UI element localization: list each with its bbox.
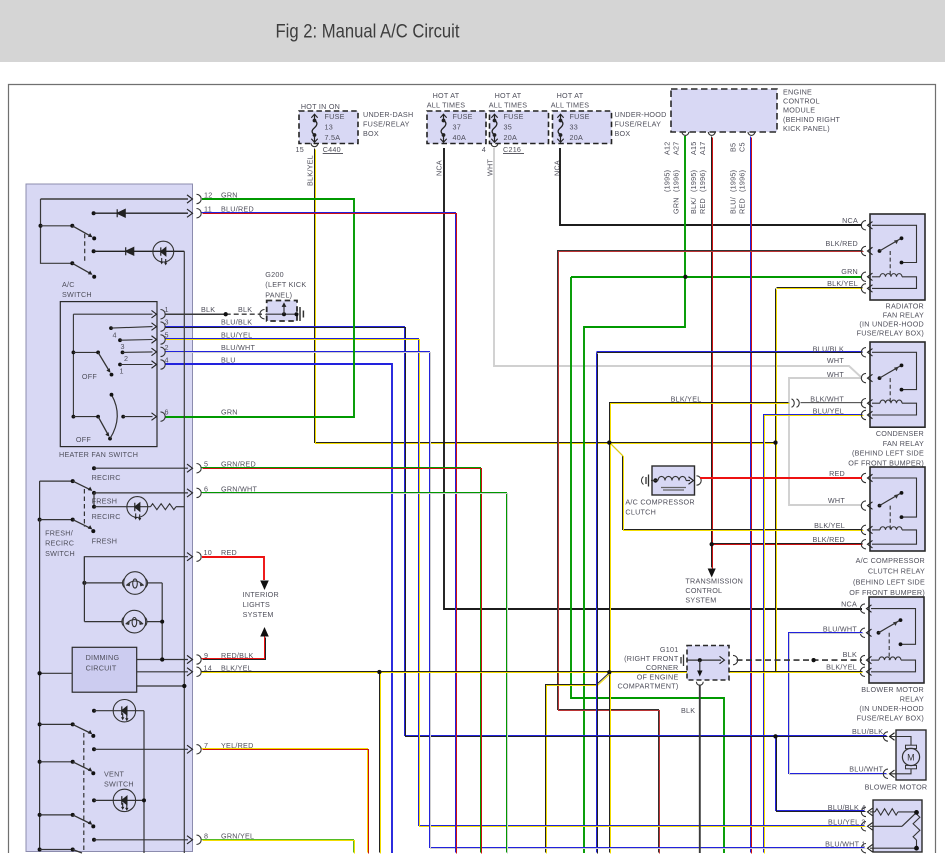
wire RED clutch to relay [700,477,862,479]
wire BLK from G101 down to cut [699,685,701,854]
wire BLK dashed G101 to blower relay [737,659,863,661]
svg-text:GRN: GRN [221,191,238,200]
svg-text:9: 9 [204,651,208,660]
A/C compressor clutch relay pin [861,525,866,534]
A/C switch lever 2 [70,261,74,265]
arrow up from RED/BLK [260,627,269,637]
svg-text:(1995): (1995) [689,170,698,192]
svg-text:M: M [907,753,915,763]
svg-text:3: 3 [121,342,125,351]
svg-text:HEATER FAN SWITCH: HEATER FAN SWITCH [59,450,138,459]
wire GRN from ECM A12/A27 down, junction, left, down to cut (two corners) [584,136,685,853]
fuse F33 20A [553,111,612,144]
svg-text:ENGINE: ENGINE [783,88,812,97]
blower motor relay internal contact wire [871,609,916,645]
svg-text:BLK/RED: BLK/RED [825,239,858,248]
blower motor relay coil [871,659,879,661]
radiator fan relay switch lever [878,249,882,253]
wire RED/BLK pin 9 to arrow [202,637,265,659]
svg-text:FAN RELAY: FAN RELAY [883,439,924,448]
radiator fan relay box [870,214,925,300]
svg-text:A/C: A/C [62,280,75,289]
fuse F35 20A [490,111,549,144]
wire BLU/YEL from heater pin 5 to resistor pin 3 [165,339,865,826]
svg-text:FAN RELAY: FAN RELAY [883,310,924,319]
svg-text:WHT: WHT [827,370,844,379]
recirc indicator LED [92,505,96,509]
vent switch lever 1 [38,722,42,726]
heater contact 2 to pin 2 [121,351,125,355]
svg-text:VENT: VENT [104,769,125,778]
svg-text:HOT AT: HOT AT [433,91,460,100]
G101 left stake symbol [681,655,684,667]
svg-text:TRANSMISSION: TRANSMISSION [685,577,743,586]
G200 pin arc [260,310,265,319]
svg-text:FRESH: FRESH [92,496,118,505]
svg-text:NCA: NCA [842,216,858,225]
svg-text:BLK/: BLK/ [689,197,698,214]
svg-text:BLK/RED: BLK/RED [812,535,845,544]
G101 internal wire [687,659,721,661]
wire BLU from heater pin 4 down to cut [165,364,392,853]
blower motor relay box [869,597,924,683]
A/C switch lever 1 [41,225,73,227]
connector C440 exit [311,143,318,146]
svg-text:BLU/YEL: BLU/YEL [221,331,252,340]
wire GRN heater pin 12 to pin 6 loop [165,199,354,417]
wire BLU/BLK branch down to resistor pin 4 [776,737,865,811]
svg-text:10: 10 [204,548,213,557]
svg-text:BLK/YEL: BLK/YEL [221,663,252,672]
svg-text:SWITCH: SWITCH [104,780,134,789]
svg-text:C5: C5 [738,142,747,152]
fuse F37 40A [427,111,486,144]
wire BLK/RED radiator relay row, down, right, down to cut [558,251,863,853]
svg-text:FRESH: FRESH [92,536,118,545]
blower motor relay pin [860,628,865,637]
condenser fan relay link dashed [889,378,891,403]
A/C compressor clutch relay box [870,467,925,551]
svg-text:BLK/YEL: BLK/YEL [671,394,702,403]
svg-text:CLUTCH RELAY: CLUTCH RELAY [868,567,925,576]
svg-text:BLU/BLK: BLU/BLK [813,344,844,353]
vent contact pin 7 [92,747,96,751]
svg-text:C440: C440 [323,145,341,154]
svg-text:40A: 40A [453,133,467,142]
svg-text:BOX: BOX [615,129,631,138]
svg-text:MODULE: MODULE [783,106,815,115]
svg-text:13: 13 [325,123,334,132]
A/C switch gang dashed link [84,234,86,263]
heater pin 6 wire [123,416,152,418]
heater contact 4 to pin 3 [109,326,113,330]
panel pin 7 [187,745,193,753]
svg-text:(RIGHT FRONT: (RIGHT FRONT [624,654,679,663]
fresh/recirc gang dashed [83,489,85,527]
blower motor relay link dashed [888,633,890,660]
svg-text:PANEL): PANEL) [265,290,292,299]
radiator fan relay pin [861,246,866,255]
blower motor relay pin [860,655,865,664]
A/C compressor clutch relay switch lever [878,504,882,508]
engine control module (ECM) box [671,89,777,132]
wire BLU/WHT from heater pin 2 to resistor pin 1 [165,352,865,848]
svg-text:4: 4 [113,331,117,340]
svg-text:UNDER-DASH: UNDER-DASH [363,110,413,119]
clutch output pin [697,476,702,485]
blower motor relay switch lever [877,631,881,635]
blower motor relay pin [860,667,865,676]
svg-text:BLK: BLK [201,305,215,314]
svg-text:RED: RED [829,469,845,478]
svg-text:HOT IN ON: HOT IN ON [301,102,340,111]
inner rail vertical (illumination bus) [183,251,185,853]
condenser fan relay box [870,342,925,427]
A/C LED circle [153,250,184,252]
wire BLU/YEL condenser relay row and vertical down to cut [764,415,863,853]
G101 ground box [687,646,729,681]
wire GRN radiator fan relay row [571,276,862,278]
wire BLK/WHT from connector to condenser fan relay [801,402,863,404]
wire to pin 10 [84,557,188,583]
svg-text:INTERIOR: INTERIOR [243,590,279,599]
heater pin 1 wire [73,313,152,315]
svg-text:OFF: OFF [76,435,91,444]
svg-text:8: 8 [204,831,208,840]
resistor element vertical [913,814,920,840]
svg-text:SYSTEM: SYSTEM [243,610,274,619]
A/C control panel block [26,184,193,852]
svg-text:RED: RED [221,548,237,557]
A/C compressor clutch relay pin [861,501,866,510]
svg-text:BLOWER MOTOR: BLOWER MOTOR [861,685,924,694]
svg-text:20A: 20A [504,133,518,142]
svg-text:RED/BLK: RED/BLK [221,651,254,660]
A/C switch wire to pin 12 [41,198,189,200]
resistor after LED [151,504,177,510]
A/C compressor clutch relay internal contact wire [872,478,917,517]
A/C compressor clutch relay pin [861,473,866,482]
wire GRN/WHT to cut [202,493,507,853]
dimming output to illumination bus [137,685,185,687]
condenser fan relay internal contact wire [872,352,917,389]
blower motor pins [883,732,888,741]
wire GRN/YEL to cut [202,840,354,853]
vent indicator LED 1 [92,709,96,713]
svg-text:RED: RED [698,198,707,214]
radiator fan relay pin [861,272,866,281]
svg-text:KICK PANEL): KICK PANEL) [783,124,830,133]
wire BLK/RED from ECM A15/A17 down to transmission arrow [711,137,713,568]
svg-text:BLK: BLK [843,650,857,659]
A/C compressor clutch box [652,466,695,495]
lamp right rail [161,583,163,660]
svg-text:UNDER-HOOD: UNDER-HOOD [615,110,667,119]
svg-text:ALL TIMES: ALL TIMES [489,100,528,109]
radiator fan relay pin [861,221,866,230]
diode D1 [117,209,125,217]
svg-text:CONTROL: CONTROL [685,586,722,595]
G101 exit hook [696,682,703,685]
svg-text:ALL TIMES: ALL TIMES [551,100,590,109]
svg-text:BLK/YEL: BLK/YEL [306,155,315,186]
condenser fan relay pin [861,373,866,382]
svg-text:5: 5 [165,331,169,340]
svg-text:CORNER: CORNER [646,663,679,672]
wire BLK pin1 to G200 [165,313,226,315]
G200 internal wire and arrow up [267,313,297,315]
vent indicator LED 2 [92,798,96,802]
wire BLK/YEL branch down to cut [379,673,381,853]
vent LED rail [143,711,145,853]
svg-text:20A: 20A [570,133,584,142]
wire WHT from fuse 35 down, right, to condenser fan relay [494,148,862,378]
lamps left rail [83,557,85,622]
fresh/recirc lever 1 [40,480,73,482]
svg-text:FUSE/RELAY: FUSE/RELAY [363,120,410,129]
condenser fan relay switch lever [878,376,882,380]
node BLK/YEL branch [377,670,381,674]
svg-text:OF FRONT BUMPER): OF FRONT BUMPER) [848,458,924,467]
A/C indicator LED row [92,249,96,253]
fresh/recirc contact pin 6 [92,491,96,495]
G200 right stake symbol [300,307,303,321]
panel pin 10 [187,553,193,561]
dimming output to pin 14 [137,671,188,673]
illumination lamp 1 [82,581,86,585]
svg-text:OF FRONT BUMPER): OF FRONT BUMPER) [849,588,925,597]
node GRN junction at ECM column [683,275,687,279]
svg-text:NCA: NCA [435,160,444,176]
svg-text:7.5A: 7.5A [325,133,341,142]
svg-text:15: 15 [296,145,305,154]
svg-text:(1996): (1996) [698,170,707,192]
wire GRN vertical down from radiator row, right, down to cut [571,277,724,853]
svg-text:6: 6 [165,407,169,416]
diode D2 [126,247,134,255]
svg-text:GRN: GRN [221,407,238,416]
link contact to LED row [93,493,95,507]
svg-text:BLK: BLK [238,305,252,314]
svg-text:RECIRC: RECIRC [92,512,121,521]
condenser fan relay pin [861,399,866,408]
svg-text:B5: B5 [729,143,738,152]
A/C compressor clutch relay pin [861,540,866,549]
svg-text:Fig 2: Manual A/C Circuit: Fig 2: Manual A/C Circuit [276,22,461,43]
wire BLU/BLK condenser relay row from x597 [597,351,863,353]
wire BLU/WHT blower relay to blower motor [789,633,887,774]
node BLK junction [224,312,228,316]
wire BLK/YEL diagonal branch down to clutch relay [610,443,863,530]
svg-text:A/C COMPRESSOR: A/C COMPRESSOR [625,498,694,507]
illumination lamp 2 [84,621,122,623]
svg-text:COMPARTMENT): COMPARTMENT) [617,682,678,691]
A/C switch contact to pin 11 with diode [92,211,96,215]
vent switch lever 3 [38,813,42,817]
vent switch lever 4 (cut) [38,848,42,852]
svg-text:CONDENSER: CONDENSER [876,429,924,438]
wire BLK dashed to G200 [226,313,262,315]
panel pin 9 [187,655,193,663]
svg-text:(BEHIND LEFT SIDE: (BEHIND LEFT SIDE [853,577,925,586]
svg-text:OF ENGINE: OF ENGINE [637,672,679,681]
svg-text:A17: A17 [698,141,707,155]
wire BLU/BLK from heater pin 3 to blower motor [165,327,887,736]
clutch core lines [661,487,686,489]
resistor pins [861,807,866,816]
svg-text:4: 4 [165,356,169,365]
svg-text:BLU/RED: BLU/RED [221,205,254,214]
svg-text:(1995): (1995) [729,170,738,192]
node BLU/BLK junction [774,734,778,738]
svg-text:RADIATOR: RADIATOR [886,301,924,310]
radiator fan relay coil [872,276,880,278]
wire WHT branch condenser relay to A/C compressor clutch relay [789,378,862,505]
svg-text:BLK/YEL: BLK/YEL [826,662,857,671]
fresh/recirc contact pin 5 [92,466,96,470]
svg-text:1: 1 [120,367,124,376]
svg-text:(BEHIND LEFT SIDE: (BEHIND LEFT SIDE [852,449,924,458]
A/C compressor clutch relay link dashed [889,506,891,530]
svg-text:GRN/YEL: GRN/YEL [221,831,254,840]
wire BLK/YEL diagonal jog to y684 then left and down to cut [546,673,610,853]
svg-text:SYSTEM: SYSTEM [685,596,716,605]
fuse F13 7.5A (under-dash) [299,111,358,144]
svg-text:OFF: OFF [82,372,97,381]
svg-text:FUSE: FUSE [453,112,473,121]
svg-text:(1996): (1996) [672,170,681,192]
svg-text:BLK/WHT: BLK/WHT [810,395,844,404]
svg-text:G200: G200 [265,270,284,279]
svg-text:CIRCUIT: CIRCUIT [86,664,117,673]
wire BLU/RED from A/C switch pin 11 down to cut [202,213,456,853]
svg-text:NCA: NCA [841,600,857,609]
svg-text:FUSE/RELAY: FUSE/RELAY [615,120,662,129]
resistor diagonal tap [902,812,917,826]
dimming input from rail [38,671,42,675]
vent contact pin 8 [92,838,96,842]
transmission control system arrow [708,569,716,578]
node BLK/YEL junction at y442 [774,441,778,445]
svg-text:GRN: GRN [841,267,858,276]
header bar [0,0,945,62]
radiator fan relay link dashed [889,251,891,277]
svg-text:BLU: BLU [221,356,236,365]
svg-text:HOT AT: HOT AT [495,91,522,100]
svg-text:(IN UNDER-HOOD: (IN UNDER-HOOD [859,320,924,329]
svg-text:BLU/YEL: BLU/YEL [813,407,844,416]
svg-text:CLUTCH: CLUTCH [625,508,656,517]
panel pin 14 [187,668,193,676]
wire BLK/YEL pin 14 to blower relay [202,671,863,673]
blower motor box [896,730,926,780]
svg-text:BOX: BOX [363,129,379,138]
svg-text:BLK/YEL: BLK/YEL [814,521,845,530]
G200 ground box [267,301,297,322]
wire BLU/RED from ECM B5/C5 down to bottom cut [750,137,752,853]
A/C compressor clutch relay coil [872,529,880,531]
svg-text:BLU/WHT: BLU/WHT [221,343,255,352]
wire BLK/YEL radiator relay row [777,287,863,289]
svg-text:FUSE: FUSE [504,112,524,121]
dimming circuit box [72,647,137,692]
fresh/recirc rail [39,481,41,519]
node BLK/YEL junction at x609 [607,441,611,445]
node BLK/YEL junction x609 on pin14 row [607,670,611,674]
svg-text:C216: C216 [503,145,521,154]
clutch ground stake symbol [646,475,649,487]
svg-text:(IN UNDER-HOOD: (IN UNDER-HOOD [859,704,924,713]
svg-text:(BEHIND RIGHT: (BEHIND RIGHT [783,115,841,124]
wire BLK/YEL vertical from radiator relay down to blower relay row [775,289,777,672]
svg-text:WHT: WHT [827,356,844,365]
wire YEL/RED to cut [202,749,368,853]
svg-text:BLOWER MOTOR: BLOWER MOTOR [865,783,928,792]
condenser fan relay pin [861,410,866,419]
svg-text:BLK/YEL: BLK/YEL [827,279,858,288]
svg-text:A27: A27 [672,141,681,155]
blower motor M circle [902,748,919,765]
svg-text:A/C COMPRESSOR: A/C COMPRESSOR [856,556,925,565]
svg-text:DIMMING: DIMMING [86,653,120,662]
svg-text:RECIRC: RECIRC [45,539,74,548]
svg-text:BLK: BLK [681,706,695,715]
connector C216 exit [491,143,498,146]
svg-text:(1995): (1995) [663,170,672,192]
svg-text:1: 1 [165,305,169,314]
vent switch gang dashed [83,733,85,852]
heater fan switch box [60,302,157,447]
A/C switch left rail [41,199,73,263]
node BLK/RED junction to clutch relay [710,542,714,546]
wire NCA from fuse 33 down then right to radiator fan relay [560,148,862,225]
svg-text:(LEFT KICK: (LEFT KICK [265,280,306,289]
blower motor internal wires [890,737,911,746]
heater contact 1 to pin 4 [118,363,122,367]
svg-text:FUSE: FUSE [325,112,345,121]
node on BLK dashed wire [812,658,816,662]
wire BLK/YEL from fuse 13 down then right (two-tone) [315,149,776,443]
svg-text:BLU/BLK: BLU/BLK [852,727,883,736]
fresh/recirc lever 2 [38,518,42,522]
vent switch lever 2 [38,760,42,764]
svg-text:A12: A12 [663,141,672,155]
heater rotary lever 1 [72,351,76,355]
svg-text:33: 33 [570,123,579,132]
panel pin 5 [187,464,193,472]
condenser fan relay pin [861,348,866,357]
node junction dots overlay [607,441,611,445]
wire RED pin 10 to interior lights arrow [202,557,264,580]
svg-text:(1996): (1996) [738,170,747,192]
ECM pin hooks [682,132,689,135]
svg-text:BLU/: BLU/ [729,197,738,214]
svg-text:GRN: GRN [672,197,681,214]
svg-text:A15: A15 [689,141,698,155]
svg-text:BLU/WHT: BLU/WHT [849,765,883,774]
svg-text:3: 3 [165,318,169,327]
svg-text:SWITCH: SWITCH [62,290,92,299]
dimming output to pin 9 [137,659,188,661]
svg-text:BLU/BLK: BLU/BLK [221,318,252,327]
svg-text:12: 12 [204,191,213,200]
panel pin 6 [187,489,193,497]
svg-text:2: 2 [124,354,128,363]
svg-text:HOT AT: HOT AT [557,91,584,100]
svg-text:ALL TIMES: ALL TIMES [427,100,466,109]
radiator fan relay internal contact wire [872,225,917,262]
svg-text:FRESH/: FRESH/ [45,529,73,538]
